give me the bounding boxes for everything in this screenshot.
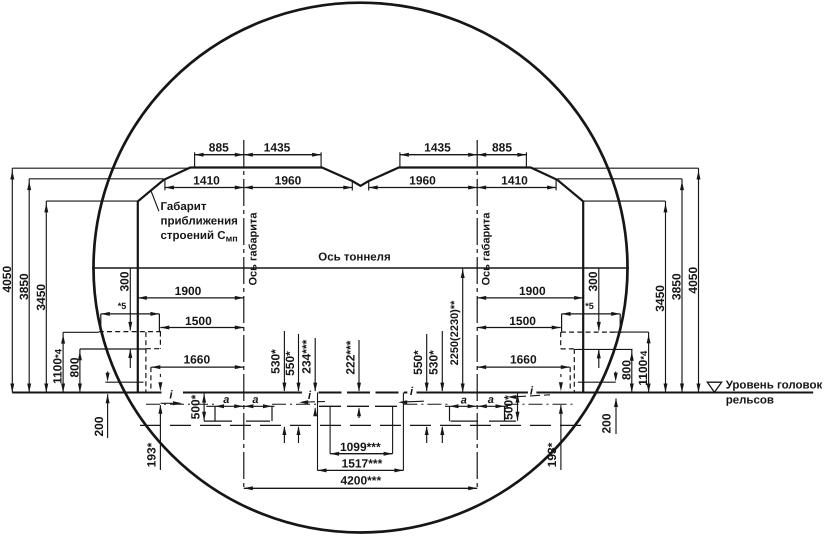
svg-text:222***: 222*** [343, 340, 357, 374]
arrow i right-outer [516, 395, 550, 397]
rail level line center dash segment [319, 392, 408, 394]
ext line 3450 right [583, 200, 665, 202]
svg-text:*5: *5 [118, 301, 127, 311]
dim line 300 right lower [598, 349, 600, 368]
svg-text:1960: 1960 [409, 173, 436, 187]
right box dashed vertical [573, 349, 575, 392]
left box top dim line [101, 313, 160, 315]
svg-text:530*: 530* [269, 349, 283, 374]
dim 885 right [477, 154, 526, 156]
dim 1500 right [477, 327, 561, 329]
left track left rail side [214, 406, 216, 421]
right track rail bottom right [489, 420, 516, 422]
level line 200 left [105, 381, 143, 383]
dim line 300 right upper [598, 268, 600, 331]
left track right rail side [271, 406, 273, 421]
tunnel circle [94, 3, 628, 533]
left 1660 ext dashed [150, 367, 152, 392]
dim line 550* left [298, 334, 300, 391]
dim line 3450 left [45, 201, 47, 392]
dim 1500 left [160, 327, 244, 329]
dim line 550* right lower arrow [426, 427, 428, 443]
dim line 1100*4 left [62, 332, 64, 392]
dim line 1100*4 right [648, 332, 650, 392]
svg-text:1517***: 1517*** [342, 456, 383, 470]
ext line 3850 left [29, 178, 163, 180]
dim 193* left lower arrow [159, 405, 161, 470]
svg-text:1660: 1660 [510, 353, 537, 367]
dim 193* left upper arrow [159, 374, 161, 377]
left box left side [100, 314, 102, 332]
left box dashed vertical [145, 332, 147, 392]
level line 200 right [578, 381, 616, 383]
dim 2250(2230)** line [462, 269, 464, 393]
dim line 234*** left [314, 338, 316, 391]
dim 1900 left [138, 297, 244, 299]
svg-text:a: a [488, 394, 494, 406]
svg-text:1660: 1660 [183, 353, 210, 367]
ext line 1435 left-gauge right [320, 152, 322, 167]
svg-text:1100*4: 1100*4 [636, 350, 650, 386]
right track axis line [476, 140, 478, 491]
dim 1960 right [369, 187, 478, 189]
ext line 885 left [194, 152, 196, 167]
dim line 3850 left [28, 179, 30, 393]
trough top dashed line [319, 405, 403, 407]
svg-text:3450: 3450 [653, 285, 667, 312]
ext line 1410 right [555, 180, 557, 190]
ext line 1960 left [351, 181, 353, 191]
dim 1900 right [477, 297, 583, 299]
arrow i right-inner [407, 400, 424, 403]
svg-text:500*: 500* [189, 394, 203, 419]
long dash bottom line [140, 424, 588, 426]
ext line 3850 right [557, 178, 682, 180]
dim line 3450 right [665, 201, 667, 392]
rail level triangle symbol [707, 382, 721, 392]
dim 1410 right [477, 187, 556, 189]
svg-text:a: a [252, 394, 258, 406]
svg-text:Ось габарита: Ось габарита [481, 212, 493, 286]
svg-text:300: 300 [586, 271, 600, 291]
dim 1660 left [151, 366, 244, 368]
dim line 222*** lower arrow [358, 408, 360, 418]
right box dashed bottom [561, 331, 622, 333]
svg-text:приближения: приближения [161, 216, 238, 228]
svg-text:1435: 1435 [424, 141, 451, 155]
svg-text:1435: 1435 [264, 141, 291, 155]
ext line 4050 right [531, 167, 699, 169]
trough inner left side [329, 406, 331, 453]
right track left rail side [449, 406, 451, 421]
dim 1410 left [165, 187, 244, 189]
svg-text:Габарит: Габарит [161, 201, 207, 213]
dim 193* right lower arrow [560, 405, 562, 470]
svg-text:3850: 3850 [17, 273, 31, 300]
dim line 530* left lower arrow [283, 427, 285, 443]
svg-text:200: 200 [600, 413, 614, 433]
svg-text:1960: 1960 [275, 173, 302, 187]
ext line 3450 left [46, 200, 138, 202]
dim 1435 right [400, 154, 477, 156]
ext line 1100 right [610, 331, 649, 333]
dim 4200*** [244, 487, 477, 489]
dim 193* right upper arrow [560, 374, 562, 377]
left box right side [158, 314, 160, 332]
right track rail bottom left [451, 420, 479, 422]
dim line 4050 left [11, 168, 13, 392]
ext line 885 right [525, 152, 527, 167]
ext line 1410 left [164, 180, 166, 190]
dim line 3850 right [681, 179, 683, 393]
svg-text:2250(2230)**: 2250(2230)** [449, 300, 461, 366]
right box right side [619, 314, 621, 332]
left box dashed right lower [159, 332, 161, 349]
right box left side [561, 314, 563, 332]
left box dashed step [146, 348, 161, 350]
dim 500* right [517, 394, 519, 421]
dim 885 left [195, 154, 244, 156]
svg-text:550*: 550* [411, 350, 425, 375]
svg-text:4200***: 4200*** [340, 473, 381, 487]
ext line 1960 right [368, 181, 370, 191]
svg-text:885: 885 [492, 141, 512, 155]
rail level line right segment [536, 392, 813, 394]
right box dashed step [561, 348, 575, 350]
svg-text:550*: 550* [283, 351, 297, 376]
dim 1960 left [244, 187, 352, 189]
rail level line left segment [12, 392, 161, 394]
svg-text:a: a [461, 395, 467, 407]
dim 1435 left [244, 154, 321, 156]
right box dashed left lower [560, 332, 562, 349]
rail level line right-track segment [417, 392, 528, 394]
dim line 550* right [426, 334, 428, 391]
dash-dot level line below rail [146, 403, 215, 405]
svg-text:800: 800 [619, 360, 633, 380]
left track axis line [243, 140, 245, 491]
dim 200 left lower arrow [107, 394, 109, 438]
svg-text:1900: 1900 [175, 284, 202, 298]
left track a-dim line [206, 405, 274, 407]
dim line 234*** left lower arrow [314, 408, 316, 416]
svg-text:4050: 4050 [686, 267, 700, 294]
dim line 800 left [79, 349, 81, 393]
left track rail bottom left [204, 420, 232, 422]
svg-text:*5: *5 [585, 301, 594, 311]
clearance gauge outline [138, 168, 583, 393]
dim 200 left upper arrow [107, 372, 109, 375]
svg-text:193*: 193* [545, 442, 559, 467]
ext line 1435 right-gauge left [399, 152, 401, 167]
left box dashed bottom [99, 331, 161, 333]
trough outer right side [402, 393, 404, 471]
right 1660 ext dashed [569, 367, 571, 392]
dim line 222*** [358, 340, 360, 391]
dim line 4050 right [698, 168, 700, 392]
svg-text:300: 300 [118, 271, 132, 291]
rail level line left-track segment [183, 392, 302, 394]
ext line 1100 left [63, 331, 99, 333]
right track a-dim line [445, 405, 508, 407]
svg-text:1500: 1500 [185, 314, 212, 328]
svg-text:Ось габарита: Ось габарита [248, 212, 260, 286]
svg-text:1900: 1900 [519, 284, 546, 298]
dim line 530* left [283, 331, 285, 391]
svg-text:рельсов: рельсов [726, 395, 774, 407]
svg-text:1500: 1500 [509, 314, 536, 328]
svg-text:Ось тоннеля: Ось тоннеля [318, 252, 390, 264]
svg-text:530*: 530* [427, 350, 441, 375]
svg-text:1099***: 1099*** [340, 440, 381, 454]
svg-text:234***: 234*** [300, 339, 314, 373]
dim 200 right lower arrow [615, 399, 617, 435]
tunnel axis horizontal line [92, 267, 629, 269]
dim 200 right upper arrow [615, 372, 617, 375]
ext line 800 right [575, 348, 633, 350]
svg-text:1410: 1410 [193, 173, 220, 187]
svg-text:1410: 1410 [501, 173, 528, 187]
dim line 550* left lower arrow [298, 427, 300, 443]
dim 500* left [203, 394, 205, 421]
svg-text:Уровень головок: Уровень головок [726, 380, 823, 392]
svg-text:800: 800 [68, 357, 82, 377]
svg-text:1100*4: 1100*4 [51, 348, 65, 384]
dim line 530* right [441, 331, 443, 391]
svg-text:a: a [223, 394, 229, 406]
dim 1660 right [477, 366, 570, 368]
svg-text:200: 200 [92, 416, 106, 436]
dim line 800 right [631, 349, 633, 392]
ext line 800 left [80, 348, 146, 350]
svg-text:3850: 3850 [670, 273, 684, 300]
arrow i left-inner [308, 401, 325, 404]
ext line 4050 left [12, 167, 190, 169]
dim 1099*** [330, 453, 393, 455]
dim line 530* right lower arrow [441, 427, 443, 443]
dim line 300 left upper [129, 268, 131, 331]
arrow i left-outer [161, 402, 174, 404]
trough outer left side [317, 393, 319, 471]
left track rail bottom right [246, 420, 270, 422]
right box top dim line [562, 313, 621, 315]
svg-text:500*: 500* [502, 395, 516, 420]
right track right rail side [504, 406, 506, 421]
svg-text:3450: 3450 [34, 284, 48, 311]
dim line 300 left lower [129, 349, 131, 368]
trough inner right side [392, 406, 394, 453]
leader line gauge label [151, 191, 159, 211]
svg-text:193*: 193* [145, 442, 159, 467]
svg-text:4050: 4050 [0, 266, 14, 293]
svg-text:885: 885 [209, 141, 229, 155]
dim 1517*** [318, 469, 404, 471]
